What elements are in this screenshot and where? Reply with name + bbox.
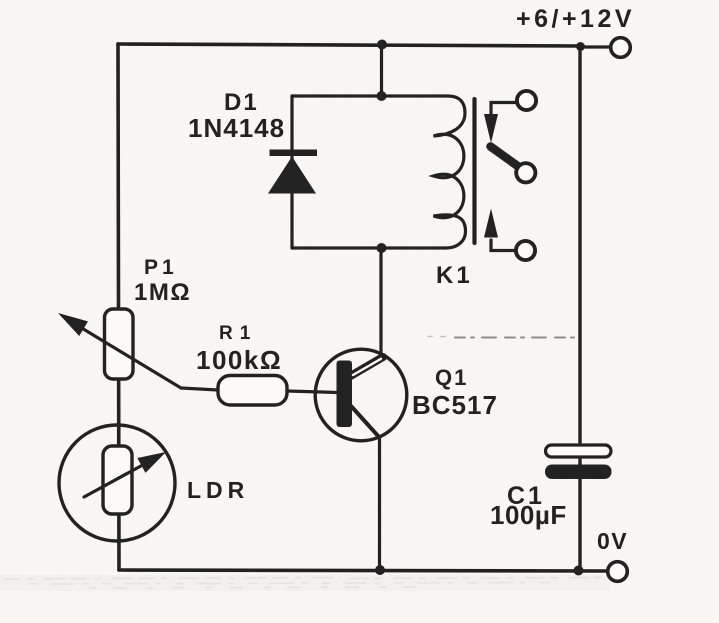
LDR arrow line — [84, 461, 150, 497]
relay contact top arrow (down) — [484, 114, 498, 143]
terminal 0V circle — [608, 562, 628, 582]
capacitor C1 top plate — [546, 445, 612, 457]
wire emitter to bottom rail — [378, 437, 381, 570]
svg-text:Q1: Q1 — [435, 365, 468, 390]
relay K1 coil — [434, 96, 466, 248]
node junction bottom right — [574, 566, 584, 576]
terminal +V circle — [611, 38, 631, 58]
transistor Q1 base bar — [337, 361, 353, 428]
LDR arrowhead — [137, 452, 166, 473]
node junction bottom emitter — [375, 565, 385, 575]
relay contact bottom circle — [516, 241, 535, 260]
wire relay loop top — [292, 94, 448, 97]
wire top terminal stub — [581, 45, 611, 48]
svg-text:100kΩ: 100kΩ — [196, 345, 282, 375]
transistor Q1 collector stroke (doubled) — [351, 357, 384, 376]
capacitor C1 bottom plate — [545, 465, 612, 480]
potentiometer P1 body — [105, 309, 134, 379]
wire wiper to R1 — [181, 388, 218, 390]
relay K1 core bar — [472, 99, 476, 243]
svg-text:1MΩ: 1MΩ — [134, 279, 191, 306]
svg-text:+6/+12V: +6/+12V — [516, 5, 635, 33]
scan artifact dashed line — [455, 337, 576, 339]
transistor Q1 emitter stroke — [351, 406, 379, 437]
node junction top right — [576, 42, 585, 51]
LDR circle — [59, 425, 175, 541]
relay contact top wire — [491, 103, 516, 115]
node junction relay top — [377, 91, 387, 101]
svg-text:R1: R1 — [219, 323, 257, 344]
svg-text:P1: P1 — [144, 256, 178, 279]
svg-text:BC517: BC517 — [412, 390, 498, 420]
wire bottom rail — [119, 570, 607, 571]
potentiometer P1 wiper line — [80, 327, 181, 388]
wire R1 to base — [287, 391, 338, 393]
LDR body — [103, 446, 132, 514]
potentiometer P1 arrowhead — [58, 313, 88, 336]
relay contact top circle — [517, 91, 536, 110]
svg-text:0V: 0V — [597, 528, 628, 554]
relay contact bottom arrow (up) — [484, 209, 498, 238]
svg-text:1N4148: 1N4148 — [188, 113, 285, 143]
transistor Q1 circle — [315, 349, 407, 441]
scan noise band bottom — [5, 578, 600, 589]
wire diode branch — [290, 96, 293, 248]
svg-text:100µF: 100µF — [490, 500, 567, 530]
diode D1 cathode bar — [270, 150, 318, 157]
wire collector branch top — [380, 45, 383, 96]
wire collector to relay — [379, 248, 382, 356]
resistor R1 body — [218, 376, 287, 406]
wire left rail — [118, 44, 119, 570]
relay switch arm — [491, 147, 520, 168]
wire top rail — [118, 44, 581, 46]
relay contact bottom wire — [491, 240, 516, 251]
svg-text:LDR: LDR — [187, 477, 249, 503]
relay contact middle circle — [516, 163, 535, 182]
node junction top rail — [377, 40, 387, 50]
diode D1 triangle — [268, 157, 316, 194]
node junction relay bottom — [377, 243, 387, 253]
svg-text:K1: K1 — [436, 262, 473, 289]
wire relay loop bottom — [292, 246, 446, 249]
wire right rail — [578, 46, 581, 570]
svg-text:D1: D1 — [224, 89, 259, 116]
